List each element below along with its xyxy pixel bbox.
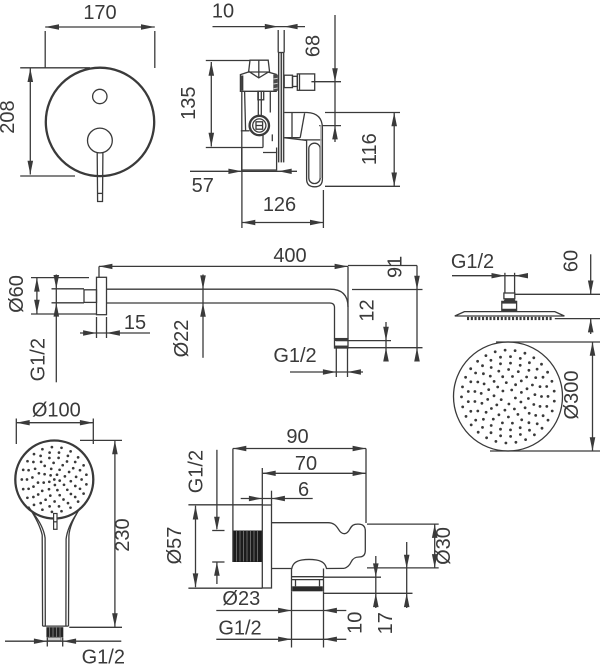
- overhead plate side view: [455, 312, 565, 316]
- head nut: [502, 301, 517, 310]
- svg-text:G1/2: G1/2: [186, 450, 208, 493]
- valve top port: [249, 60, 270, 77]
- overhead plate nozzles: [467, 317, 552, 320]
- dimension G1/2 holder outlet: [216, 618, 346, 642]
- dimension O300: [490, 342, 600, 451]
- dimension G1/2 arm outlet: [273, 345, 363, 375]
- svg-text:91: 91: [385, 256, 407, 278]
- mixer lever handle: [97, 153, 103, 202]
- svg-text:400: 400: [273, 245, 306, 267]
- dimension 230: [69, 440, 134, 627]
- svg-text:135: 135: [178, 87, 200, 120]
- svg-text:G1/2: G1/2: [28, 338, 50, 381]
- svg-text:70: 70: [295, 453, 317, 475]
- dimension O57: [164, 505, 262, 588]
- dimension O22: [171, 275, 206, 358]
- svg-text:G1/2: G1/2: [218, 618, 261, 640]
- dimension 135: [178, 61, 263, 148]
- arm end nut: [335, 339, 349, 377]
- head cone dark: [503, 299, 516, 302]
- dimension 126: [242, 148, 324, 229]
- dimension 208: [0, 68, 90, 176]
- hand shower mode switch: [54, 514, 57, 530]
- dimension O23: [216, 588, 346, 648]
- valve body: [241, 91, 272, 171]
- svg-text:Ø60: Ø60: [6, 275, 28, 313]
- svg-text:G1/2: G1/2: [82, 647, 125, 667]
- dimension 70: [262, 453, 366, 505]
- holder wall thread stub: [234, 531, 263, 563]
- svg-text:10: 10: [212, 1, 234, 23]
- svg-text:15: 15: [124, 312, 146, 334]
- dimension 12: [336, 299, 423, 361]
- dimension 170: [45, 2, 155, 68]
- dimension 6: [241, 479, 313, 505]
- dimension G1/2 holder wall thread: [186, 450, 225, 584]
- head connection pipe: [505, 273, 515, 293]
- overhead shower face circle: [454, 342, 563, 451]
- dimension O60: [6, 275, 97, 314]
- holder body and hook: [272, 523, 366, 569]
- valve hex nut: [240, 72, 278, 92]
- svg-text:Ø300: Ø300: [561, 371, 583, 420]
- overhead shower nozzle dots: [460, 349, 556, 445]
- svg-text:126: 126: [263, 194, 296, 216]
- hand shower handle: [29, 507, 81, 627]
- diverter button circle: [93, 89, 107, 103]
- holder wall flange: [262, 505, 271, 588]
- svg-text:6: 6: [298, 479, 309, 501]
- dimension G1/2 head pipe: [451, 251, 528, 278]
- dimension G1/2 arm wall thread: [28, 275, 84, 383]
- svg-text:12: 12: [357, 299, 379, 321]
- svg-text:17: 17: [375, 612, 397, 634]
- arm wall stub G1/2: [84, 290, 97, 303]
- dimension 17 holder: [324, 542, 413, 634]
- dimension 116: [325, 113, 400, 187]
- svg-text:G1/2: G1/2: [273, 345, 316, 367]
- right outlet fitting: [284, 74, 314, 90]
- valve check-valve circle: [250, 116, 269, 135]
- svg-text:208: 208: [0, 100, 19, 133]
- svg-text:10: 10: [344, 612, 366, 634]
- lever handle side view: [284, 113, 322, 187]
- dimension 68: [303, 15, 342, 142]
- dimension 10 holder: [324, 556, 382, 634]
- dimension 15: [80, 312, 150, 338]
- valve wall plate: [278, 53, 284, 163]
- shower arm tube: [107, 289, 349, 338]
- svg-text:Ø100: Ø100: [32, 400, 81, 422]
- hand shower spray dots: [20, 446, 87, 514]
- holder outlet tube: [292, 569, 324, 592]
- dimension 91: [348, 256, 423, 362]
- svg-text:116: 116: [359, 133, 381, 165]
- svg-text:90: 90: [286, 426, 308, 448]
- hand shower head circle: [15, 441, 93, 519]
- dimension 60: [515, 250, 600, 334]
- dimension G1/2 hand shower: [5, 638, 125, 667]
- svg-text:Ø23: Ø23: [222, 588, 260, 610]
- svg-text:G1/2: G1/2: [451, 251, 494, 273]
- dimension 90: [233, 426, 366, 562]
- svg-text:Ø57: Ø57: [164, 527, 186, 565]
- svg-text:68: 68: [303, 35, 325, 57]
- svg-text:60: 60: [560, 250, 582, 272]
- valve mounting foot: [242, 148, 277, 171]
- mixer wall plate circle: [46, 68, 154, 176]
- lever base circle: [88, 128, 113, 153]
- dimension 400: [99, 245, 348, 307]
- hand shower G1/2 end cap: [46, 627, 63, 641]
- svg-text:57: 57: [192, 175, 214, 197]
- svg-text:Ø22: Ø22: [171, 320, 193, 358]
- dimension O30: [367, 524, 455, 568]
- dimension 10: [212, 1, 305, 53]
- arm wall flange: [97, 277, 107, 314]
- svg-text:170: 170: [83, 2, 116, 24]
- dimension O100: [16, 400, 93, 445]
- dimension 57: [190, 169, 297, 197]
- head pipe collar: [504, 293, 515, 299]
